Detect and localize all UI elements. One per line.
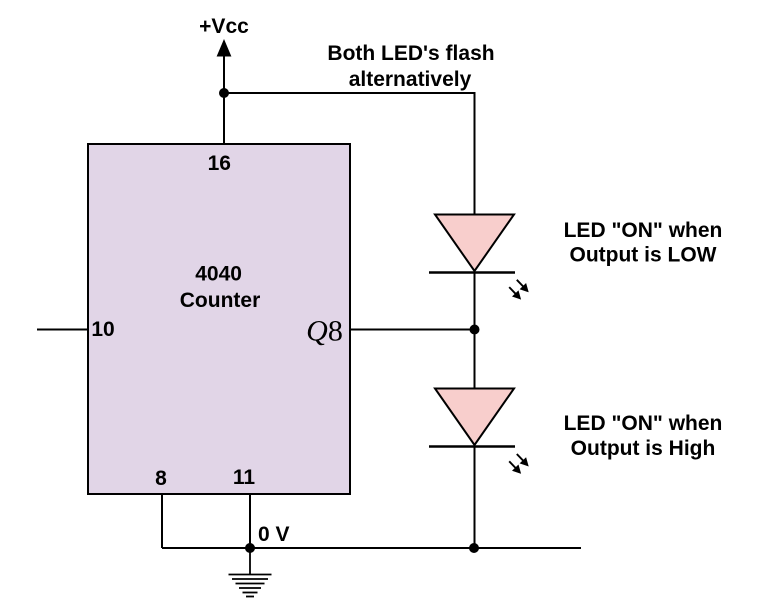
ground symbol [229, 548, 272, 597]
LED D1 triangle [435, 215, 514, 272]
svg-text:4040: 4040 [195, 263, 242, 286]
wire 0V rail [162, 547, 581, 549]
LED D1 cathode bar [429, 271, 515, 274]
wire Vcc stem [223, 56, 225, 144]
LED D1 light arrow b [509, 287, 520, 298]
wire pin 11 down [249, 494, 251, 548]
wire pin 10 stub [37, 329, 88, 331]
wire Vcc horizontal to LED branch [224, 92, 475, 94]
LED D2 light arrow a [517, 454, 528, 465]
junction dot LED D2 to rail [469, 543, 479, 553]
svg-text:8: 8 [155, 467, 167, 490]
svg-text:Output is High: Output is High [571, 437, 716, 460]
svg-text:alternatively: alternatively [349, 68, 472, 91]
junction dot Q8 node [470, 325, 480, 335]
junction dot at Vcc node [219, 88, 229, 98]
svg-text:Output is LOW: Output is LOW [570, 244, 717, 267]
junction dot ground node [245, 543, 255, 553]
wire Q8 node down to LED D2 [474, 330, 476, 390]
LED D1 light arrow a [517, 280, 528, 291]
svg-text:LED "ON" when: LED "ON" when [564, 219, 723, 242]
svg-text:LED "ON" when: LED "ON" when [564, 412, 723, 435]
svg-text:0 V: 0 V [258, 523, 290, 546]
wire LED D2 to ground rail [474, 447, 476, 549]
wire pin 8 down [161, 494, 163, 548]
svg-text:10: 10 [91, 318, 114, 341]
LED D2 cathode bar [429, 445, 515, 448]
Vcc arrowhead [217, 39, 232, 57]
IC U1 4040 counter body [88, 144, 350, 494]
wire LED D1 to Q8 node [474, 273, 476, 331]
wire vertical down to LED D1 [474, 92, 476, 215]
LED D2 light arrow b [509, 461, 520, 472]
svg-text:+Vcc: +Vcc [199, 15, 249, 38]
svg-text:16: 16 [208, 152, 231, 175]
svg-text:11: 11 [233, 466, 256, 489]
svg-text:Both LED's flash: Both LED's flash [327, 42, 494, 65]
svg-text:Q8: Q8 [306, 315, 343, 348]
svg-text:Counter: Counter [180, 289, 261, 312]
wire Q8 from IC [349, 329, 475, 331]
LED D2 triangle [435, 389, 514, 446]
